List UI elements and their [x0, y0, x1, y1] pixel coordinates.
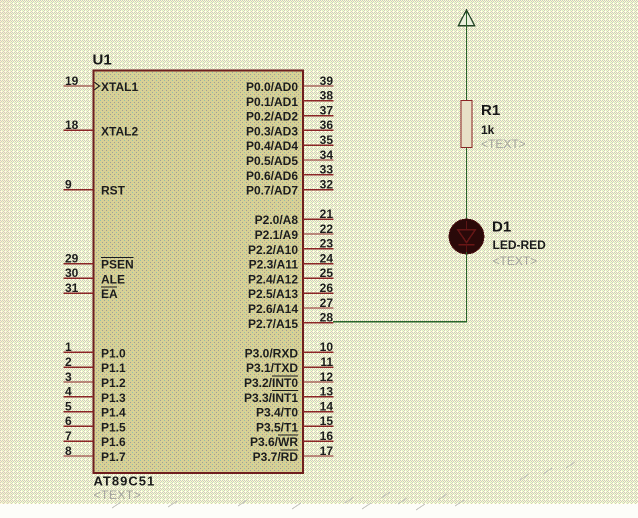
svg-text:6: 6	[65, 414, 72, 428]
pin 2 (P1.1) left stub + number + name	[64, 355, 127, 375]
svg-text:P1.4: P1.4	[101, 406, 126, 420]
pin 23 (P2.2/A10) right stub + number + name	[248, 237, 334, 257]
svg-text:P3.5/T1: P3.5/T1	[256, 420, 298, 434]
svg-text:31: 31	[65, 281, 79, 295]
svg-text:P2.4/A12: P2.4/A12	[248, 272, 298, 286]
svg-text:21: 21	[320, 207, 334, 221]
svg-text:1k: 1k	[481, 123, 495, 137]
svg-text:33: 33	[320, 163, 334, 177]
pin 37 (P0.2/AD2) right stub + number + name	[246, 103, 334, 123]
svg-text:22: 22	[320, 222, 334, 236]
svg-text:P2.2/A10: P2.2/A10	[248, 243, 298, 257]
wire D1 down	[466, 252, 468, 322]
svg-text:P3.6/WR: P3.6/WR	[250, 435, 298, 449]
pin 36 (P0.3/AD3) right stub + number + name	[246, 118, 334, 138]
pin 12 (P3.2/INT0) right stub + number + name	[244, 370, 334, 390]
left edge tint	[0, 0, 11, 504]
svg-text:30: 30	[65, 266, 79, 280]
svg-text:P3.2/INT0: P3.2/INT0	[244, 376, 298, 390]
svg-text:17: 17	[320, 444, 334, 458]
pin 14 (P3.4/T0) right stub + number + name	[256, 399, 334, 419]
power symbol (VCC arrow)	[458, 10, 474, 26]
pin 18 (XTAL2) left stub + number + name	[64, 118, 139, 138]
svg-text:P0.1/AD1: P0.1/AD1	[246, 95, 298, 109]
svg-text:38: 38	[320, 89, 334, 103]
pin 11 (P3.1/TXD) right stub + number + name	[246, 355, 334, 375]
svg-text:18: 18	[65, 118, 79, 132]
svg-text:P0.3/AD3: P0.3/AD3	[246, 124, 298, 138]
svg-text:P2.3/A11: P2.3/A11	[249, 258, 299, 272]
svg-text:P3.0/RXD: P3.0/RXD	[245, 346, 299, 360]
svg-text:13: 13	[320, 385, 334, 399]
svg-text:P2.7/A15: P2.7/A15	[248, 317, 298, 331]
svg-text:D1: D1	[492, 219, 511, 236]
svg-text:39: 39	[320, 74, 334, 88]
pin 21 (P2.0/A8) right stub + number + name	[255, 207, 334, 227]
pin 9 (RST) left stub + number + name	[64, 177, 126, 197]
svg-text:24: 24	[320, 251, 334, 265]
svg-text:P0.2/AD2: P0.2/AD2	[246, 110, 298, 124]
svg-text:LED-RED: LED-RED	[493, 238, 547, 252]
faint watermark marks	[112, 462, 575, 510]
pin 39 (P0.0/AD0) right stub + number + name	[246, 74, 334, 94]
svg-text:26: 26	[320, 281, 334, 295]
svg-text:P1.1: P1.1	[101, 361, 126, 375]
svg-text:U1: U1	[93, 52, 112, 69]
IC U1 AT89C51 body	[94, 71, 304, 474]
XTAL1 input arrow	[95, 82, 100, 89]
pin 32 (P0.7/AD7) right stub + number + name	[246, 177, 334, 197]
pin 25 (P2.4/A12) right stub + number + name	[248, 266, 334, 286]
pin 38 (P0.1/AD1) right stub + number + name	[246, 89, 334, 109]
svg-text:28: 28	[320, 311, 334, 325]
pin 5 (P1.4) left stub + number + name	[64, 399, 127, 419]
svg-text:<TEXT>: <TEXT>	[481, 137, 526, 151]
pin 17 (P3.7/RD) right stub + number + name	[253, 444, 334, 464]
svg-text:35: 35	[320, 133, 334, 147]
svg-text:P2.6/A14: P2.6/A14	[248, 302, 298, 316]
svg-text:XTAL1: XTAL1	[101, 80, 138, 94]
svg-text:4: 4	[65, 385, 72, 399]
svg-text:9: 9	[65, 177, 72, 191]
pin 3 (P1.2) left stub + number + name	[64, 370, 127, 390]
svg-text:P1.2: P1.2	[101, 376, 126, 390]
pin 7 (P1.6) left stub + number + name	[64, 429, 127, 449]
resistor R1	[461, 101, 472, 148]
svg-text:34: 34	[320, 148, 334, 162]
svg-text:P1.0: P1.0	[101, 346, 126, 360]
svg-text:27: 27	[320, 296, 334, 310]
bottom white margin band	[0, 504, 638, 518]
svg-text:11: 11	[320, 355, 333, 369]
svg-text:<TEXT>: <TEXT>	[493, 254, 538, 268]
svg-text:10: 10	[320, 340, 334, 354]
pin 16 (P3.6/WR) right stub + number + name	[250, 429, 334, 449]
svg-text:2: 2	[65, 355, 72, 369]
svg-text:19: 19	[65, 74, 79, 88]
svg-text:32: 32	[320, 177, 334, 191]
svg-text:AT89C51: AT89C51	[94, 474, 156, 489]
pin 22 (P2.1/A9) right stub + number + name	[255, 222, 334, 242]
svg-text:23: 23	[320, 237, 334, 251]
svg-text:P0.4/AD4: P0.4/AD4	[246, 139, 298, 153]
pin 13 (P3.3/INT1) right stub + number + name	[244, 385, 334, 405]
pin 34 (P0.5/AD5) right stub + number + name	[246, 148, 334, 168]
svg-text:P3.7/RD: P3.7/RD	[253, 450, 299, 464]
wire R1 to D1	[466, 148, 468, 221]
svg-text:ALE: ALE	[101, 272, 125, 286]
pin 24 (P2.3/A11) right stub + number + name	[249, 251, 334, 271]
pin 33 (P0.6/AD6) right stub + number + name	[246, 163, 334, 183]
svg-text:P1.7: P1.7	[101, 450, 126, 464]
pin 29 (PSEN) left stub + number + name	[64, 251, 134, 271]
svg-text:14: 14	[320, 399, 334, 413]
wire to pin 28 P2.7/A15	[333, 321, 466, 323]
pin 26 (P2.5/A13) right stub + number + name	[248, 281, 334, 301]
svg-text:12: 12	[320, 370, 334, 384]
svg-text:3: 3	[65, 370, 72, 384]
pin 28 (P2.7/A15) right stub + number + name	[248, 311, 334, 331]
svg-text:P0.0/AD0: P0.0/AD0	[246, 80, 298, 94]
svg-text:PSEN: PSEN	[101, 258, 134, 272]
svg-text:P0.6/AD6: P0.6/AD6	[246, 169, 298, 183]
svg-text:P3.4/T0: P3.4/T0	[256, 406, 298, 420]
svg-text:RST: RST	[101, 184, 126, 198]
svg-text:16: 16	[320, 429, 334, 443]
svg-text:P3.1/TXD: P3.1/TXD	[246, 361, 298, 375]
svg-text:P3.3/INT1: P3.3/INT1	[244, 391, 298, 405]
LED D1	[449, 219, 484, 254]
svg-text:P1.6: P1.6	[101, 435, 126, 449]
svg-text:7: 7	[65, 429, 72, 443]
svg-text:8: 8	[65, 444, 72, 458]
pin 35 (P0.4/AD4) right stub + number + name	[246, 133, 334, 153]
svg-text:29: 29	[65, 251, 79, 265]
svg-text:P2.5/A13: P2.5/A13	[248, 287, 298, 301]
pin 8 (P1.7) left stub + number + name	[64, 444, 127, 464]
svg-text:P1.5: P1.5	[101, 420, 126, 434]
svg-text:R1: R1	[481, 102, 500, 119]
pin 6 (P1.5) left stub + number + name	[64, 414, 127, 434]
svg-text:5: 5	[65, 399, 72, 413]
svg-text:P2.1/A9: P2.1/A9	[255, 228, 299, 242]
svg-text:<TEXT>: <TEXT>	[94, 488, 142, 502]
pin 27 (P2.6/A14) right stub + number + name	[248, 296, 334, 316]
pin 1 (P1.0) left stub + number + name	[64, 340, 127, 360]
svg-text:37: 37	[320, 103, 334, 117]
svg-text:1: 1	[65, 340, 72, 354]
svg-text:36: 36	[320, 118, 334, 132]
svg-text:P1.3: P1.3	[101, 391, 126, 405]
pin 15 (P3.5/T1) right stub + number + name	[256, 414, 334, 434]
svg-text:XTAL2: XTAL2	[101, 124, 138, 138]
svg-text:P0.7/AD7: P0.7/AD7	[246, 184, 298, 198]
pin 31 (EA) left stub + number + name	[64, 281, 119, 301]
pin 30 (ALE) left stub + number + name	[64, 266, 126, 286]
svg-text:EA: EA	[101, 287, 118, 301]
pin 4 (P1.3) left stub + number + name	[64, 385, 127, 405]
svg-text:25: 25	[320, 266, 334, 280]
wire VCC to R1	[466, 26, 468, 101]
svg-text:P2.0/A8: P2.0/A8	[255, 213, 299, 227]
svg-text:P0.5/AD5: P0.5/AD5	[246, 154, 298, 168]
svg-text:15: 15	[320, 414, 334, 428]
pin 19 (XTAL1) left stub + number + name	[64, 74, 139, 94]
pin 10 (P3.0/RXD) right stub + number + name	[245, 340, 334, 360]
